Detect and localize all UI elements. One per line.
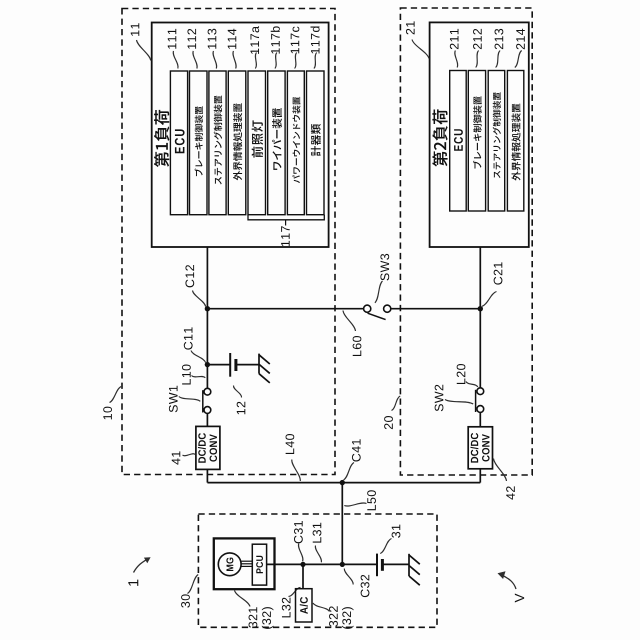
- leader 10: [110, 387, 122, 403]
- dashed box 10 (first power supply system): [122, 9, 335, 475]
- load 2 box (second load): [430, 22, 529, 247]
- A/C box: [296, 589, 313, 622]
- label L50: [367, 490, 376, 510]
- label L31: [313, 523, 322, 543]
- wire load1 to SW1 (vertical): [206, 247, 208, 388]
- leader SW2: [445, 400, 473, 405]
- label 42: [506, 486, 515, 499]
- PCU box: [252, 544, 266, 585]
- load1 strip box 8 (instruments): [307, 71, 325, 215]
- wire L40 horizontal bus: [207, 482, 480, 484]
- bracket 117 tick: [285, 220, 287, 226]
- load1 strip text wiper device: [272, 108, 282, 170]
- wire SW1 to DC/DC 41: [206, 413, 208, 426]
- label 113: [208, 29, 217, 49]
- label 117a: [250, 26, 259, 54]
- leader 213: [496, 51, 501, 68]
- load1 strip text ECU: [175, 129, 185, 153]
- wire battery 31 to ground: [382, 563, 409, 565]
- label L10: [182, 365, 191, 385]
- dashed box 20 (second power supply system): [400, 8, 532, 475]
- switch SW3 blade: [368, 313, 386, 319]
- switch SW1 blade: [202, 390, 204, 412]
- wire L60 right segment: [391, 308, 481, 310]
- leader 117d: [314, 53, 317, 69]
- DC/DC 41 text line1: [198, 433, 206, 463]
- load1 strip text headlamp: [252, 120, 263, 157]
- switch SW1 top contact: [204, 388, 211, 395]
- load1 strip box 3 (steering control device): [209, 71, 226, 215]
- leader SW3: [375, 281, 383, 303]
- leader 117a: [255, 53, 256, 69]
- MG/PCU unit box 321: [214, 538, 275, 589]
- label 322: [329, 606, 338, 626]
- load2 strip text steering control device: [493, 92, 501, 178]
- label 21: [406, 21, 415, 34]
- load1 strip text steering control device: [214, 96, 222, 185]
- node C12 junction: [205, 306, 210, 311]
- load1 strip text brake control device: [195, 106, 203, 176]
- switch SW2 blade: [475, 390, 477, 412]
- wire node C11 to battery 12: [207, 364, 230, 366]
- load1 strip box 7 (power window device): [287, 71, 304, 215]
- leader 21: [412, 40, 429, 59]
- title dai-2 fuka (second load): [432, 109, 447, 166]
- leader L32: [289, 587, 301, 596]
- leader 321: [235, 591, 251, 607]
- motor-generator MG circle: [218, 553, 241, 576]
- ground symbol for battery 31: [409, 554, 420, 585]
- wire L60 left segment: [207, 308, 363, 310]
- wire PCU to battery 31: [267, 563, 377, 565]
- label SW3: [380, 254, 389, 281]
- switch SW1 bottom contact: [204, 407, 211, 414]
- label C21: [494, 262, 503, 284]
- load2 strip box 3 (steering control device): [488, 71, 505, 212]
- leader 41: [183, 454, 196, 456]
- battery 31 long plate: [376, 554, 378, 577]
- leader 114: [233, 51, 236, 69]
- leader L50: [344, 503, 366, 506]
- leader 117c: [295, 53, 297, 69]
- leader L31: [315, 546, 321, 563]
- wire DC/DC 42 to L40: [479, 469, 481, 483]
- DC/DC 41 text line2: [210, 434, 218, 461]
- leader 42: [494, 459, 507, 482]
- leader 112: [193, 51, 197, 69]
- label 211: [450, 29, 459, 49]
- label 41: [172, 451, 181, 464]
- load2 strip text brake control device: [473, 96, 482, 168]
- wire L50 vertical: [341, 483, 343, 565]
- load2 strip text ECU: [454, 129, 463, 151]
- leader 212: [476, 51, 479, 68]
- leader C41: [344, 463, 355, 481]
- label SW2: [435, 385, 444, 411]
- label C12: [185, 265, 194, 287]
- label L60: [353, 336, 362, 356]
- DC/DC 42 text line2: [482, 434, 490, 461]
- leader C31: [298, 544, 302, 562]
- leader L10: [192, 376, 206, 378]
- leader C12: [193, 291, 206, 307]
- dashed box 30 (power source unit): [198, 514, 437, 627]
- label 12: [237, 402, 246, 415]
- load 1 box (first load): [152, 23, 329, 248]
- MG text: [226, 558, 233, 571]
- arrow for label V: [498, 571, 517, 589]
- label L40: [286, 434, 295, 454]
- load2 strip box 4 (external info processing device): [507, 71, 523, 212]
- label 111: [168, 29, 177, 49]
- label 31: [392, 525, 401, 538]
- DC/DC converter 42 box: [468, 427, 492, 469]
- bracket 117 grouping strips 117a-117d: [248, 215, 324, 220]
- load1 strip box 1 (ECU): [170, 71, 187, 215]
- leader 113: [213, 51, 217, 69]
- leader C21: [482, 292, 497, 307]
- label 117b: [271, 26, 280, 53]
- leader 30: [188, 575, 199, 594]
- label 321: [249, 607, 258, 627]
- label L32: [282, 598, 291, 618]
- leader 12: [233, 386, 241, 398]
- load1 strip box 4 (external info processing device): [228, 71, 246, 215]
- label C32: [361, 575, 370, 597]
- wire battery 12 to ground: [236, 364, 259, 366]
- leader 20: [392, 396, 401, 411]
- leader SW1: [179, 397, 201, 402]
- load1 strip text external info processing device: [233, 103, 242, 180]
- label 10: [103, 407, 112, 420]
- leader L60: [343, 311, 356, 332]
- label SW1: [169, 386, 178, 412]
- leader 322: [313, 603, 330, 612]
- label 112: [187, 29, 196, 49]
- node C21 junction: [478, 306, 483, 311]
- label C11: [184, 327, 193, 349]
- node C41 junction: [340, 480, 345, 485]
- label 117c: [291, 27, 300, 54]
- label 117d: [311, 26, 320, 53]
- MG to PCU three-phase lines: [241, 561, 252, 566]
- battery 12 short plate: [234, 359, 237, 371]
- label 114: [228, 29, 237, 49]
- ground symbol for battery 12: [259, 354, 270, 383]
- load2 strip box 1 (ECU): [450, 71, 467, 212]
- leader 117b: [275, 53, 277, 69]
- wire L32 vertical to A/C: [302, 564, 304, 588]
- load1 strip text instruments: [311, 124, 321, 156]
- title dai-1 fuka (first load): [154, 110, 169, 167]
- wire load2 to SW2 (vertical): [479, 247, 481, 388]
- battery 12 long plate: [229, 353, 231, 377]
- leader 211: [455, 51, 458, 68]
- label C31: [294, 521, 303, 543]
- label 214: [516, 29, 525, 50]
- label C41: [352, 439, 361, 461]
- PCU text: [256, 556, 263, 574]
- label 1 (vehicle power system): [128, 580, 138, 586]
- switch SW2 bottom contact: [477, 406, 484, 413]
- leader L40: [292, 460, 301, 482]
- label 11: [131, 23, 140, 36]
- switch SW3 right contact: [384, 305, 391, 312]
- battery 31 short plate: [381, 559, 384, 571]
- node C32 junction: [340, 562, 345, 567]
- load1 strip box 6 (wiper device): [268, 71, 285, 215]
- label V (vehicle): [515, 594, 524, 603]
- load1 strip text power window device: [292, 97, 300, 183]
- leader C11: [191, 351, 206, 363]
- switch SW3 left contact: [364, 305, 371, 312]
- label L20: [457, 364, 466, 384]
- wire SW2 to DC/DC 42: [479, 412, 481, 426]
- load2 strip box 2 (brake control device): [468, 71, 485, 212]
- leader C32: [344, 569, 353, 585]
- label 213: [495, 29, 504, 49]
- label 212: [473, 29, 482, 49]
- node C31 junction: [300, 562, 305, 567]
- load1 strip box 5 (headlamp): [248, 71, 266, 215]
- label 117: [281, 226, 290, 246]
- leader 214: [515, 51, 522, 68]
- load2 strip text external info processing device: [512, 104, 521, 181]
- arrow for label 1: [134, 557, 151, 572]
- node C11 junction: [205, 362, 210, 367]
- wire DC/DC 41 to L40: [206, 469, 208, 482]
- DC/DC 42 text line1: [470, 433, 478, 463]
- A/C text: [300, 597, 308, 614]
- leader 11: [137, 40, 151, 61]
- DC/DC converter 41 box: [196, 426, 220, 469]
- leader 111: [173, 51, 178, 69]
- label 30: [181, 594, 190, 607]
- label 20: [384, 416, 393, 429]
- label (32) under 321: [262, 607, 274, 629]
- leader L20: [466, 382, 478, 388]
- switch SW2 top contact: [477, 388, 484, 395]
- load1 strip box 2 (brake control device): [190, 71, 208, 215]
- leader 31: [380, 539, 391, 554]
- label (32) under 322: [342, 607, 354, 629]
